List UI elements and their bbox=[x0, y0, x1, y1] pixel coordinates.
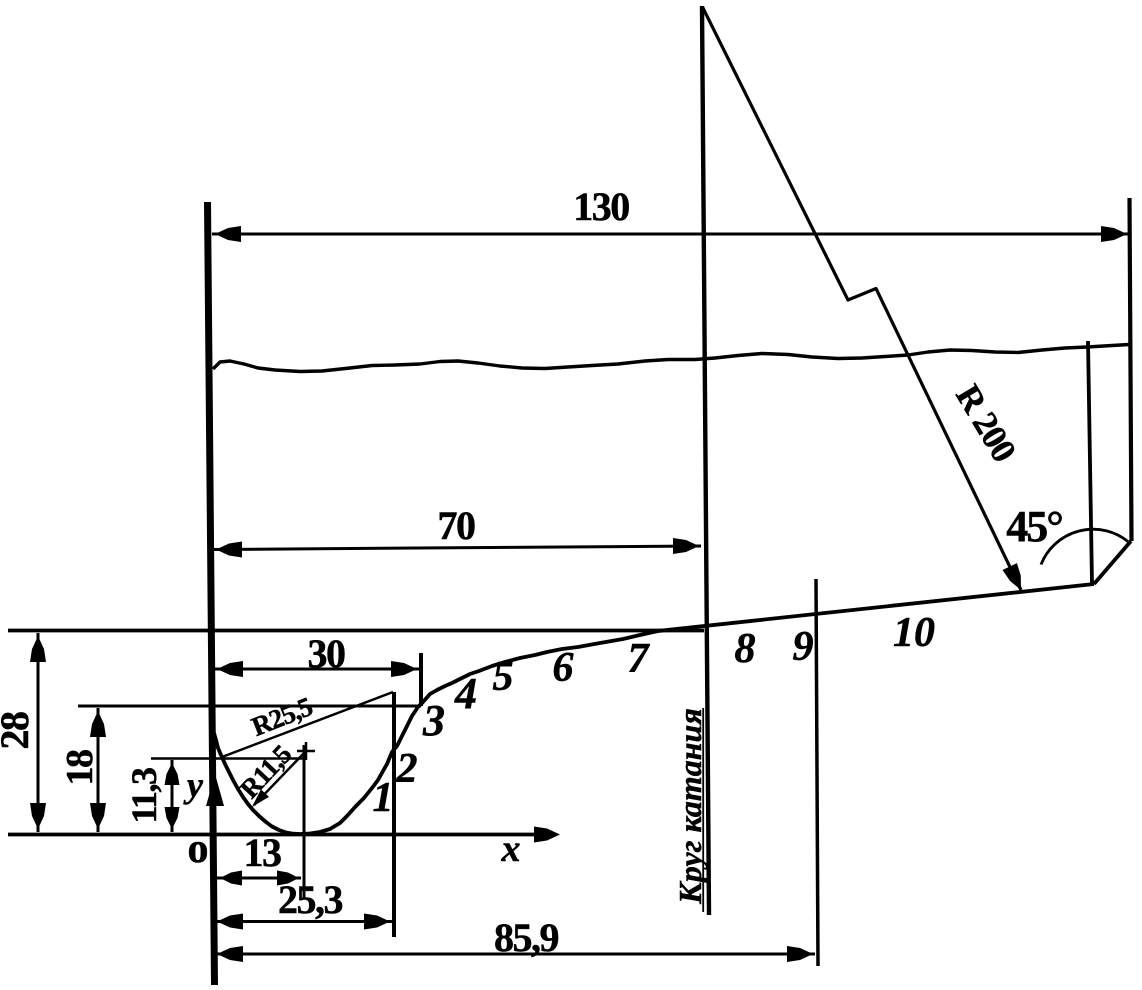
svg-text:10: 10 bbox=[893, 610, 935, 656]
svg-text:11,3: 11,3 bbox=[124, 768, 164, 824]
svg-text:8: 8 bbox=[735, 626, 756, 672]
svg-text:3: 3 bbox=[422, 696, 445, 745]
svg-text:x: x bbox=[501, 828, 521, 870]
svg-text:o: o bbox=[188, 826, 209, 872]
svg-text:4: 4 bbox=[454, 669, 477, 718]
svg-text:28: 28 bbox=[0, 712, 37, 750]
svg-text:Круг катания: Круг катания bbox=[672, 708, 708, 905]
svg-text:7: 7 bbox=[628, 636, 651, 682]
svg-text:5: 5 bbox=[493, 654, 514, 700]
svg-text:30: 30 bbox=[308, 631, 346, 676]
svg-text:9: 9 bbox=[793, 624, 814, 670]
svg-text:y: y bbox=[183, 765, 204, 805]
svg-text:R 200: R 200 bbox=[948, 378, 1024, 468]
svg-text:70: 70 bbox=[438, 503, 476, 548]
svg-text:1: 1 bbox=[373, 775, 394, 821]
svg-text:13: 13 bbox=[244, 830, 282, 875]
svg-text:2: 2 bbox=[396, 746, 418, 792]
svg-text:85,9: 85,9 bbox=[494, 915, 559, 960]
svg-text:6: 6 bbox=[553, 645, 574, 691]
svg-text:45°: 45° bbox=[1006, 502, 1062, 551]
svg-text:130: 130 bbox=[573, 184, 629, 229]
svg-text:25,3: 25,3 bbox=[278, 877, 343, 922]
svg-text:18: 18 bbox=[59, 750, 101, 786]
